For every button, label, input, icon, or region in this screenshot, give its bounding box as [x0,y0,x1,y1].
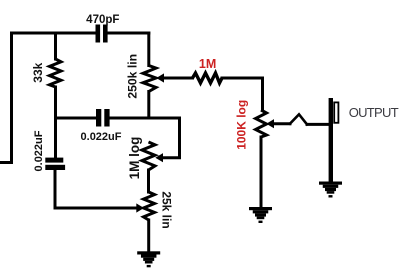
svg-text:OUTPUT: OUTPUT [349,105,399,120]
svg-text:0.022uF: 0.022uF [81,131,122,143]
wire 33k branch middle lead [54,87,57,158]
jack tip bar [329,98,333,183]
wire 1M log wiper loop [161,118,180,158]
wire top rail right segment [108,32,149,35]
ground output [319,182,342,198]
wire left vertical with exit stub [0,33,12,163]
wire 100K log bottom lead [260,137,263,207]
wire 1M resistor to 100K pot [222,78,263,110]
wire mid rail right of cap [110,117,180,120]
svg-text:33k: 33k [31,62,45,82]
svg-text:470pF: 470pF [86,14,119,26]
wire top rail left segment [12,32,96,35]
svg-text:1M: 1M [199,57,216,71]
wire hump to jack [307,123,329,126]
wire 1M log bottom to 25k top [147,170,150,192]
potentiometer 250k lin zigzag [143,66,156,92]
wire hump jog [290,114,307,124]
arrow wiper 25k lin [136,203,144,212]
arrow wiper 100K log [266,119,274,128]
ground 25k lin [137,251,160,267]
wire mid rail left of cap [56,117,97,120]
wire 33k branch lower lead [54,170,57,208]
arrow wiper 1M log [155,153,163,162]
svg-text:1M log: 1M log [127,137,142,180]
capacitor 0.022uF vertical plates [45,158,63,163]
potentiometer 25k lin zigzag [144,192,155,220]
wire 250k wiper to 1M resistor [162,77,193,80]
capacitor 470pF plates [96,25,101,43]
resistor 33k zigzag [50,59,62,87]
capacitor 0.022uF horizontal plates [96,109,101,127]
resistor 1M zigzag [193,73,223,83]
wire 25k bottom lead [147,220,150,252]
potentiometer 100K log zigzag [256,110,267,137]
arrow wiper 250k lin [156,73,164,82]
wire 25k wiper horizontal [55,207,138,210]
wire 250k bottom lead [147,92,150,119]
wire 100K wiper left of hump [272,122,290,125]
wire 33k branch upper lead [54,33,57,59]
svg-text:100K log: 100K log [235,100,249,150]
potentiometer 1M log zigzag [142,142,155,170]
wire 250k top lead [147,33,150,66]
ground 100K log [249,207,272,223]
svg-text:25k lin: 25k lin [160,191,174,228]
svg-text:250k lin: 250k lin [125,54,139,99]
jack sleeve rectangle [334,102,338,122]
svg-text:0.022uF: 0.022uF [33,130,45,171]
